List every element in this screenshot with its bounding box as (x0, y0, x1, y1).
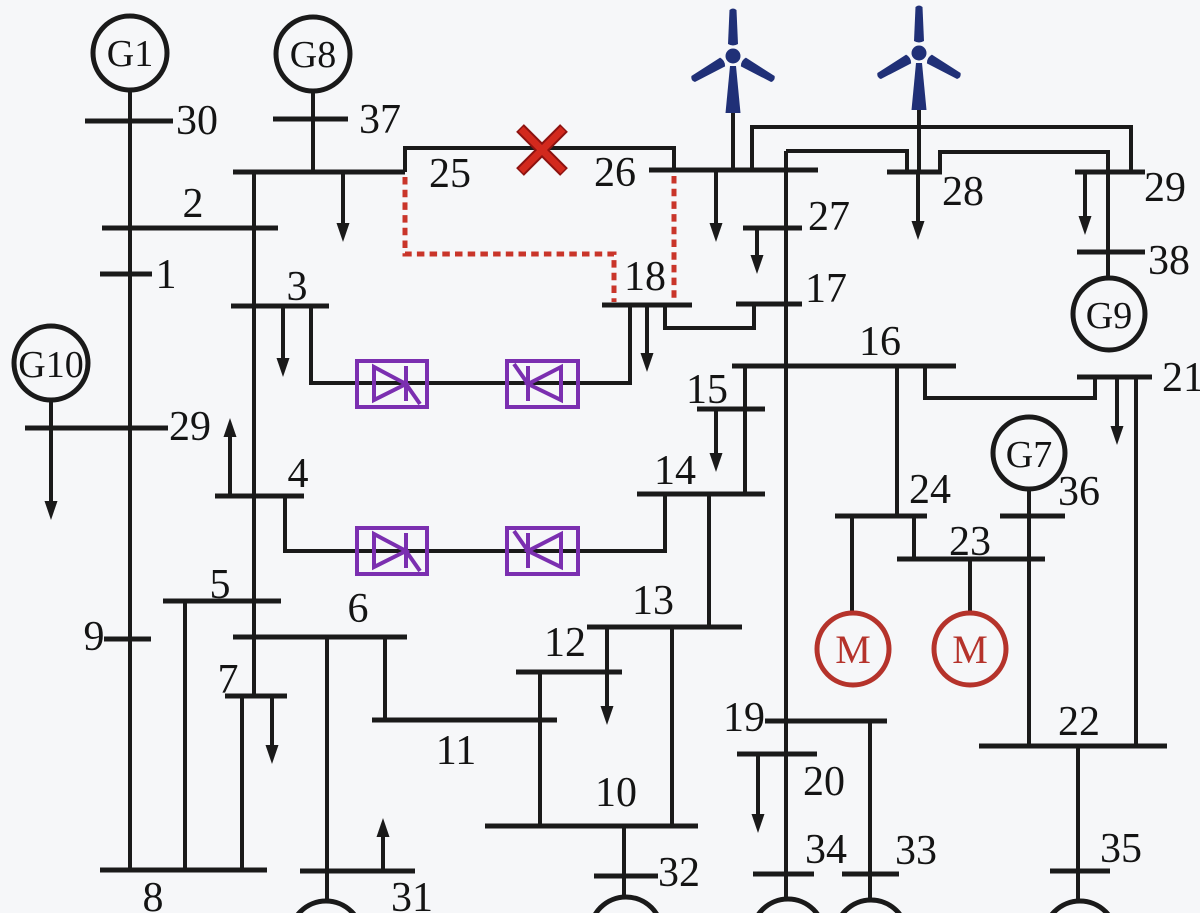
wire: bus13 to bus10 (670, 627, 674, 826)
bus 15 (697, 407, 765, 412)
load arrow bus29 (1079, 172, 1092, 235)
bus 26 (649, 168, 818, 173)
wire: bus23 to motor M2 (968, 559, 972, 613)
load arrow bus20 (752, 754, 765, 833)
wire: bus19 to bus33 and gen (868, 721, 872, 903)
bus 21 (1077, 375, 1152, 380)
wire: G7-bus36-bus22 column (1027, 489, 1031, 746)
svg-text:G1: G1 (107, 33, 153, 75)
load arrow bus25 (337, 172, 350, 242)
thyristor valve box 3 (rectifier, bus4 side) (357, 528, 427, 574)
wire: G8 to bus 25 column (311, 90, 315, 172)
wire: bus6 to bus11 (383, 637, 387, 720)
bus 37 (273, 117, 348, 122)
bus 24 (835, 514, 927, 519)
svg-text:14: 14 (654, 448, 696, 494)
wire: bus 28 to 29 route (940, 152, 1108, 252)
bus 27 (743, 226, 802, 231)
svg-text:M: M (835, 627, 871, 672)
load arrow bus29 left (45, 428, 58, 520)
svg-text:33: 33 (895, 828, 937, 874)
svg-text:5: 5 (210, 562, 231, 608)
generator G10 (14, 326, 88, 400)
svg-text:32: 32 (658, 850, 700, 896)
wire: bus24 to motor M1 (850, 516, 854, 613)
bus 32 (594, 874, 658, 879)
bus 10 (485, 824, 698, 829)
svg-text:25: 25 (429, 151, 471, 197)
load arrow bus27 (751, 228, 764, 274)
generator below bus 34 (752, 899, 824, 913)
wire: bus6 to bus31 and gen (325, 637, 329, 901)
load arrow bus7 (266, 696, 279, 764)
bus 6 (233, 635, 407, 640)
svg-text:8: 8 (143, 875, 164, 913)
red dashed reroute 26 to 18 (672, 176, 677, 302)
bus 2 (102, 226, 278, 231)
wire: line 25-26 with riser (405, 148, 674, 172)
wire: line 26 to 29 top route (752, 127, 1131, 172)
wire: bus21 to bus22 (1134, 377, 1138, 746)
svg-text:G8: G8 (290, 34, 336, 76)
svg-text:7: 7 (218, 657, 239, 703)
load arrow bus3 (277, 308, 290, 377)
bus 8 (100, 868, 267, 873)
wire: bus14 to bus13 (707, 494, 711, 627)
svg-text:27: 27 (808, 194, 850, 240)
svg-text:10: 10 (595, 770, 637, 816)
svg-text:24: 24 (909, 467, 951, 513)
bus 22 (979, 744, 1167, 749)
svg-text:30: 30 (176, 98, 218, 144)
generator G8 (276, 17, 350, 91)
wire: wind turbine 1 mast lead (731, 110, 735, 170)
wire: bus12-bus11-bus10 (538, 672, 542, 826)
svg-text:17: 17 (805, 266, 847, 312)
bus 30 (85, 119, 173, 124)
bus 1 (100, 272, 152, 277)
generator below bus 35 (1044, 901, 1116, 913)
bus 18 (602, 303, 692, 308)
svg-text:2: 2 (183, 181, 204, 227)
svg-text:G10: G10 (18, 344, 83, 386)
thyristor valve box 1 (rectifier, bus3 side) (357, 361, 427, 407)
svg-text:23: 23 (949, 519, 991, 565)
svg-text:11: 11 (436, 728, 476, 774)
svg-text:35: 35 (1100, 826, 1142, 872)
svg-text:28: 28 (942, 169, 984, 215)
bus 17 (736, 302, 802, 307)
bus 31 (300, 869, 415, 874)
generator G9 (1073, 278, 1145, 350)
svg-text:G7: G7 (1006, 434, 1052, 476)
svg-text:15: 15 (686, 367, 728, 413)
bus 14 (637, 492, 765, 497)
bus 25 (233, 170, 405, 175)
wire: bus25-2-3-4-5-7 column (252, 172, 256, 696)
wire: 16 to 21 route (925, 366, 1095, 398)
svg-text:9: 9 (84, 614, 105, 660)
svg-text:3: 3 (287, 264, 308, 310)
svg-text:12: 12 (544, 620, 586, 666)
motor M2 (934, 613, 1006, 685)
wire: bus16 to bus24 (895, 366, 899, 516)
wind turbine 2 (875, 6, 962, 111)
bus 38 (1077, 250, 1145, 255)
source arrow bus4 up (224, 418, 237, 494)
wire: bus16-15-14 column (743, 366, 747, 494)
svg-text:22: 22 (1058, 699, 1100, 745)
wire: bus22 to bus35 and gen (1076, 746, 1080, 905)
svg-text:38: 38 (1148, 238, 1190, 284)
svg-text:26: 26 (594, 150, 636, 196)
bus 9 (104, 637, 151, 642)
load arrow bus15 (710, 409, 723, 472)
generator G1 (93, 16, 167, 90)
svg-text:18: 18 (624, 254, 666, 300)
svg-text:36: 36 (1058, 469, 1100, 515)
wire: bus10 to bus32 and gen (622, 826, 626, 898)
svg-text:19: 19 (723, 695, 765, 741)
bus 12 (516, 670, 622, 675)
generator below bus 32 (590, 897, 662, 913)
svg-text:G9: G9 (1086, 295, 1132, 337)
svg-text:37: 37 (359, 97, 401, 143)
svg-text:13: 13 (632, 578, 674, 624)
wire: line 26/17 corner to bus 28 (786, 151, 907, 172)
generator below bus 33 (835, 900, 907, 913)
thyristor valve box 4 (inverter, bus14 side) (507, 528, 578, 574)
wire: G10 stem (49, 399, 53, 428)
bus 34 (753, 872, 814, 877)
wire: bus5 to bus8 (183, 601, 187, 870)
svg-text:34: 34 (805, 827, 847, 873)
load arrow bus13-12 (601, 627, 614, 725)
wire: bus18 to bus17 link (665, 304, 754, 328)
svg-text:6: 6 (348, 586, 369, 632)
bus 28 (887, 170, 942, 175)
bus 5 (163, 599, 281, 604)
bus 23 (897, 557, 1045, 562)
bus 16 (732, 364, 956, 369)
svg-text:31: 31 (391, 875, 433, 913)
load arrow bus28 (912, 172, 925, 240)
bus 19 (765, 719, 887, 724)
svg-text:29: 29 (1144, 165, 1186, 211)
wire: bus3 to HVDC1 to bus18 (311, 305, 630, 383)
wire: G1 column (30-2-1-29-9-8) (128, 88, 132, 870)
svg-text:1: 1 (156, 252, 177, 298)
load arrow bus26 (710, 170, 723, 242)
svg-text:M: M (952, 627, 988, 672)
bus 7 (225, 694, 287, 699)
source arrow bus31 up (377, 818, 390, 870)
svg-text:16: 16 (859, 319, 901, 365)
bus 4 (215, 494, 304, 499)
wire: G9 stem (1106, 252, 1110, 278)
red dashed reroute 25 to 18 (405, 177, 614, 302)
thyristor valve box 2 (inverter, bus18 side) (507, 361, 578, 407)
generator G7 (993, 417, 1065, 489)
bus 3 (231, 304, 329, 309)
bus 33 (842, 872, 899, 877)
generator below bus 31 (290, 901, 362, 913)
load arrow bus21 (1111, 377, 1124, 445)
load arrow bus18 (641, 305, 654, 372)
wire: wind turbine 2 mast lead (917, 108, 921, 172)
wire: 17-26-27-16-19-20-34 long column (784, 151, 788, 902)
svg-text:20: 20 (803, 759, 845, 805)
bus 36 (1000, 514, 1065, 519)
svg-text:21: 21 (1162, 355, 1200, 401)
bus 29 left (25, 426, 168, 431)
wire: bus24 to bus23 (912, 516, 916, 559)
bus 35 (1050, 869, 1110, 874)
motor M1 (817, 613, 889, 685)
wind turbine 1 (689, 9, 776, 114)
wire: bus7 to bus8 (240, 696, 244, 870)
svg-text:4: 4 (288, 451, 309, 497)
bus 13 (587, 625, 742, 630)
bus 20 (737, 752, 817, 757)
bus 29 (1075, 170, 1145, 175)
wire: bus4 to HVDC2 to bus14 (285, 494, 665, 551)
bus 11 (372, 718, 557, 723)
svg-text:29: 29 (169, 404, 211, 450)
fault X on line 25-26 (520, 128, 564, 172)
